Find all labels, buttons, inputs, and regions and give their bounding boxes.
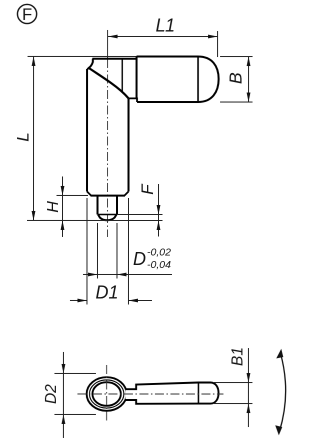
svg-text:-0,04: -0,04 xyxy=(147,259,171,271)
L1 right extension line xyxy=(217,31,219,57)
ring horizontal centerline xyxy=(77,393,223,395)
pin left edge xyxy=(97,196,99,215)
body right extension down xyxy=(127,198,129,304)
svg-text:F: F xyxy=(138,183,157,195)
body bottom extension left xyxy=(57,194,88,196)
dimension D1 xyxy=(70,282,152,302)
cap junction line xyxy=(197,57,199,102)
dimension B xyxy=(226,57,251,103)
pin tip extension line xyxy=(27,219,162,221)
svg-text:D1: D1 xyxy=(95,282,118,302)
head left edge xyxy=(136,56,138,98)
dimension L xyxy=(14,56,36,220)
cam top edge xyxy=(92,58,136,60)
B top extension xyxy=(220,56,253,58)
svg-text:B: B xyxy=(226,72,246,84)
ring vertical centerline xyxy=(106,365,108,423)
dimension D2 xyxy=(43,352,66,438)
B1 bottom extension xyxy=(213,403,253,405)
pin dome xyxy=(98,214,117,220)
pin chamfer extension line right xyxy=(117,213,163,215)
dimension H xyxy=(45,176,64,237)
body right edge xyxy=(128,98,130,191)
rotation arc arrow xyxy=(275,349,285,435)
svg-text:L1: L1 xyxy=(156,16,175,36)
svg-text:L: L xyxy=(14,132,33,141)
cam S-curve profile xyxy=(88,67,128,98)
head bottom edge xyxy=(137,101,198,103)
head cap arc xyxy=(198,57,219,103)
lever arm plan outline xyxy=(125,382,218,403)
hub step xyxy=(129,98,138,102)
cam tangent edge xyxy=(121,59,123,93)
head top edge with extension to L xyxy=(28,55,137,57)
D2 bottom extension xyxy=(54,413,95,415)
body bottom edge xyxy=(91,195,125,197)
svg-text:D: D xyxy=(133,249,146,269)
pin right edge xyxy=(116,196,118,215)
D2 top extension xyxy=(54,372,95,374)
centerline main view xyxy=(107,30,109,59)
pin left extension down xyxy=(96,223,98,279)
dimension D with tolerance xyxy=(83,246,172,276)
arm taper junction line xyxy=(197,383,199,404)
ring chamfer circle xyxy=(89,380,123,408)
svg-text:H: H xyxy=(45,201,62,213)
body bottom chamfer right xyxy=(125,191,129,195)
body bottom chamfer left xyxy=(87,191,91,195)
B bottom extension xyxy=(220,101,253,103)
body left edge xyxy=(86,69,88,191)
ring outer circle xyxy=(87,377,127,411)
pin chamfer line xyxy=(98,213,118,215)
dimension F xyxy=(138,183,160,237)
pin right extension down xyxy=(116,223,118,279)
ring inner circle xyxy=(92,382,120,406)
dimension B1 xyxy=(229,347,250,427)
dimension L1 xyxy=(108,15,218,38)
B1 top extension xyxy=(213,382,253,384)
svg-text:-0,02: -0,02 xyxy=(147,247,171,259)
svg-text:D2: D2 xyxy=(43,384,60,404)
cam hook left xyxy=(87,59,93,69)
svg-text:F: F xyxy=(22,6,32,24)
body left extension down xyxy=(86,198,88,305)
svg-text:B1: B1 xyxy=(229,347,246,366)
view label circle F xyxy=(17,4,36,24)
